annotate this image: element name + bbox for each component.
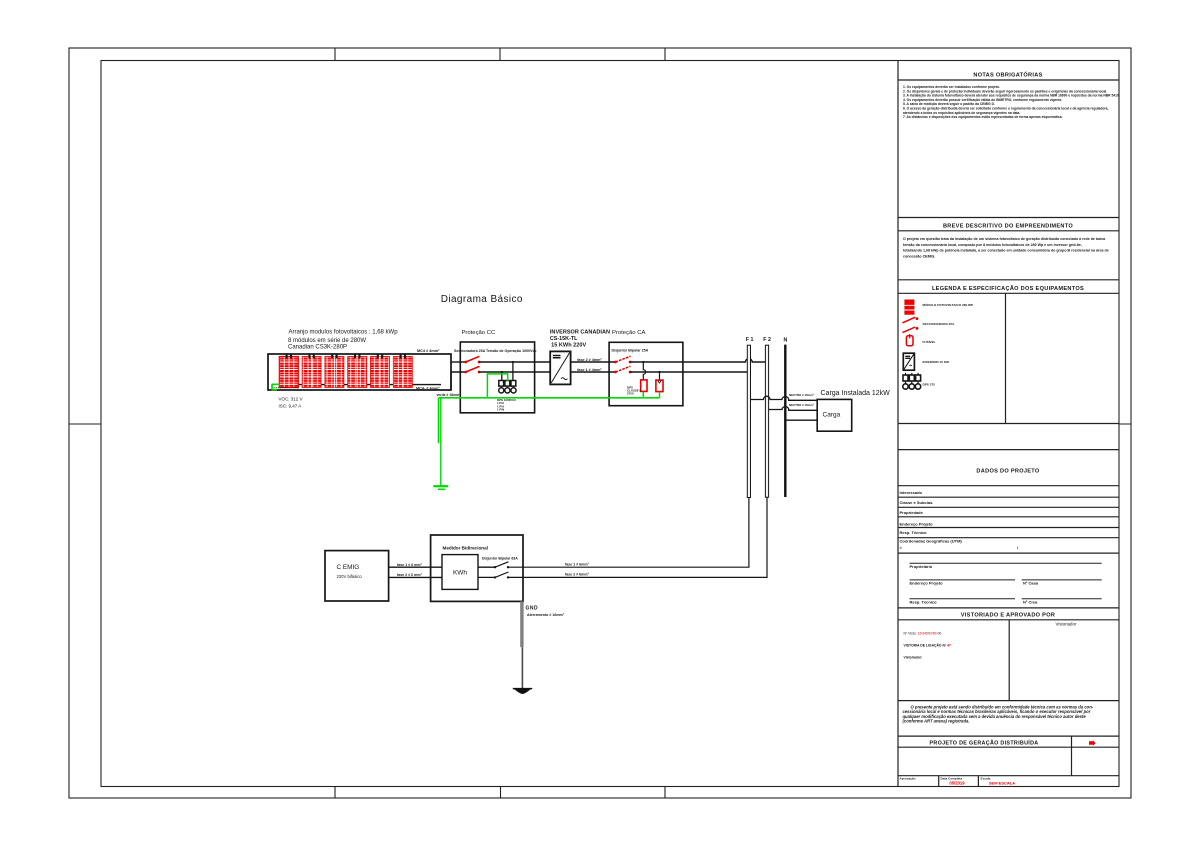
project data field labels xyxy=(900,490,1020,550)
svg-text:fase 2 # 6 mm²: fase 2 # 6 mm² xyxy=(397,573,423,577)
wire: S2 to inverter xyxy=(479,371,550,373)
svg-text:VISTORIA DE LIGAÇÃO Nº 47: VISTORIA DE LIGAÇÃO Nº 47 xyxy=(904,642,952,647)
wire: PV- riser to DC switch xyxy=(451,372,466,390)
svg-text:MC4- # 4mm²: MC4- # 4mm² xyxy=(416,387,440,391)
svg-text:KWh: KWh xyxy=(453,570,467,577)
GND thin riser xyxy=(521,647,523,689)
wire: C EMIG fase1 xyxy=(389,566,442,568)
svg-text:7. As distâncias e disposições: 7. As distâncias e disposições dos equip… xyxy=(903,115,1063,119)
svg-text:VISTORIADO E APROVADO POR: VISTORIADO E APROVADO POR xyxy=(961,612,1055,618)
svg-text:Proprietário: Proprietário xyxy=(910,564,933,569)
svg-text:Canadian CS3K-280P: Canadian CS3K-280P xyxy=(288,344,347,350)
svg-text:DADOS DO PROJETO: DADOS DO PROJETO xyxy=(976,468,1039,474)
svg-text:GND: GND xyxy=(526,606,539,612)
svg-text:Diagrama Básico: Diagrama Básico xyxy=(441,294,523,305)
green: CA riser 1 xyxy=(642,392,644,398)
wire: S1 to inverter xyxy=(479,361,550,363)
GND earth symbol xyxy=(513,689,532,694)
AC breaker pole 2 xyxy=(614,366,631,373)
svg-text:fase 2 # 4mm²: fase 2 # 4mm² xyxy=(577,358,602,362)
svg-text:verde # 16mm²: verde # 16mm² xyxy=(437,393,462,397)
svg-text:\: \ xyxy=(1017,545,1019,550)
DPS CA label xyxy=(627,385,641,395)
meter switch pole 1 xyxy=(494,562,509,569)
DC switch S2 xyxy=(464,366,480,373)
svg-text:Seccionadora 25A Tensão de O: Seccionadora 25A Tensão de Operação 1000… xyxy=(454,349,537,353)
wire: F2 to carga xyxy=(769,406,818,410)
DPS CA tap 1 with crossover xyxy=(643,362,645,380)
svg-text:Propriedade: Propriedade xyxy=(900,510,924,515)
kWh meter box xyxy=(442,555,478,590)
DPS tap from plus wire xyxy=(512,362,514,380)
DPS DC value label xyxy=(497,398,517,412)
title block panel grid xyxy=(898,61,1119,787)
meter switch pole 2 xyxy=(494,572,509,579)
svg-text:fase 1 # 4mm²: fase 1 # 4mm² xyxy=(577,368,602,372)
svg-text:Resp. Técnico: Resp. Técnico xyxy=(910,600,938,605)
legend seccionadora symbol xyxy=(903,317,919,332)
GND heavy riser xyxy=(520,601,523,647)
svg-text:Vistoriador: Vistoriador xyxy=(1056,622,1077,627)
svg-text:INVERSOR CANADIAN: INVERSOR CANADIAN xyxy=(550,330,610,336)
junction dots CA xyxy=(642,361,644,363)
svg-text:fase 1 # 6 mm²: fase 1 # 6 mm² xyxy=(397,563,423,567)
svg-text:totalizando 1,68 kWp de potênc: totalizando 1,68 kWp de potência instala… xyxy=(903,249,1109,253)
svg-text:fase 2 # 6mm²: fase 2 # 6mm² xyxy=(565,573,590,577)
wire: breaker to bus fase1 xyxy=(630,371,747,373)
busbar F1 xyxy=(747,345,750,497)
svg-text:fase 1 # 6mm²: fase 1 # 6mm² xyxy=(565,562,590,566)
svg-text:Interessado: Interessado xyxy=(900,490,923,495)
DPS CA module 1 xyxy=(641,380,647,392)
wire: N to carga xyxy=(787,419,818,421)
green: CA riser 2 xyxy=(659,392,661,398)
svg-text:Endereço Projeto: Endereço Projeto xyxy=(910,581,944,586)
wire: inverter fase1 out xyxy=(571,371,616,373)
svg-text:1 P/N: 1 P/N xyxy=(497,408,504,412)
svg-text:O projeto em questão trata da: O projeto em questão trata da instalação… xyxy=(903,237,1106,241)
svg-text:275V: 275V xyxy=(627,392,634,396)
wire: breaker to bus fase2 xyxy=(630,359,765,362)
green: earth electrode symbol xyxy=(433,485,448,487)
wire: kWh to switch top xyxy=(478,566,495,568)
svg-text:ISC: 9,47 A: ISC: 9,47 A xyxy=(279,403,302,408)
carga box xyxy=(817,399,852,431)
svg-text:concessão CEMIG.: concessão CEMIG. xyxy=(903,254,935,258)
svg-text:8 módulos em série de 280W: 8 módulos em série de 280W xyxy=(288,338,366,344)
DPS tap from minus wire xyxy=(501,372,503,380)
junction dots DC xyxy=(501,371,503,373)
PV array caption xyxy=(288,329,398,350)
svg-text:Disjuntor Bipolar 25A: Disjuntor Bipolar 25A xyxy=(612,348,649,352)
svg-text:F 2: F 2 xyxy=(763,337,771,343)
svg-text:NEUTRO # 16mm²: NEUTRO # 16mm² xyxy=(789,393,814,397)
svg-text:Nº Casa: Nº Casa xyxy=(1023,581,1039,586)
PV string bottom wire xyxy=(281,384,441,386)
svg-text:NOTAS OBRIGATÓRIAS: NOTAS OBRIGATÓRIAS xyxy=(973,70,1042,78)
legend fusivel symbol xyxy=(906,334,913,346)
svg-text:Proteção CC: Proteção CC xyxy=(462,330,496,336)
green: CC riser xyxy=(487,374,507,398)
wire: F1 tail to meter xyxy=(508,498,749,568)
svg-text:Medidor Bidirecional: Medidor Bidirecional xyxy=(443,546,488,551)
signature lines xyxy=(910,563,1102,599)
svg-text:NEUTRO # 16mm²: NEUTRO # 16mm² xyxy=(789,403,814,407)
DPS CA module 2 xyxy=(656,380,663,392)
Protecao CA box xyxy=(609,342,683,405)
svg-text:Endereço Projeto: Endereço Projeto xyxy=(900,522,934,527)
DPS CA tap 2 xyxy=(659,372,661,380)
svg-text:C EMIG: C EMIG xyxy=(337,564,360,571)
svg-text:Aprovação: Aprovação xyxy=(900,776,916,780)
svg-text:MÓDULO FOTOVOLTAICO 280 WP: MÓDULO FOTOVOLTAICO 280 WP xyxy=(923,302,974,307)
wire: inverter fase2 out xyxy=(571,361,616,363)
legend DPS symbol xyxy=(903,373,921,389)
svg-text:15 KWh 220V: 15 KWh 220V xyxy=(551,343,586,349)
svg-text:INVERSOR 15 KW: INVERSOR 15 KW xyxy=(923,360,950,364)
svg-text:tensão da concessionária local: tensão da concessionária local, composto… xyxy=(903,243,1082,247)
svg-text:LEGENDA E ESPECIFICAÇÃO DOS EQ: LEGENDA E ESPECIFICAÇÃO DOS EQUIPAMENTOS xyxy=(932,285,1084,292)
svg-text:Aterramento # 16mm²: Aterramento # 16mm² xyxy=(527,613,565,617)
green: array earth stub xyxy=(272,384,281,389)
wire: PV+ to DC switch xyxy=(451,361,466,363)
legend inversor symbol xyxy=(903,353,914,370)
wire: kWh to switch bottom xyxy=(478,576,495,578)
AC breaker pole 1 xyxy=(614,356,631,363)
busbar labels xyxy=(746,337,788,344)
svg-text:F 1: F 1 xyxy=(746,337,754,343)
svg-text:05/2019: 05/2019 xyxy=(949,781,965,786)
Protecao CC box xyxy=(460,342,534,413)
busbar N xyxy=(784,345,786,497)
DPS DC cluster xyxy=(499,381,516,394)
svg-text:Disjuntor Bipolar 63A: Disjuntor Bipolar 63A xyxy=(482,557,518,561)
svg-text:Arranjo modulos fotovoltaicos: Arranjo modulos fotovoltaicos : 1,68 kWp xyxy=(289,329,399,335)
svg-text:Nº Visto: 12/345/6789-00: Nº Visto: 12/345/6789-00 xyxy=(904,632,942,636)
svg-text:Coordenadas Geográficas (UTM): Coordenadas Geográficas (UTM) xyxy=(900,539,963,544)
svg-text:MC4 # 4mm²: MC4 # 4mm² xyxy=(417,349,440,353)
wire: C EMIG fase2 xyxy=(389,576,442,578)
C EMIG box xyxy=(325,551,389,601)
svg-text:Classe e Subclas.: Classe e Subclas. xyxy=(900,500,934,505)
svg-text:(conforme ART anexa) registrad: (conforme ART anexa) registrada. xyxy=(903,718,970,723)
wire: F1 to carga (neutro run) xyxy=(751,396,818,400)
bottom strip labels xyxy=(900,776,991,780)
string id dashed tag xyxy=(274,387,300,389)
svg-text:>: > xyxy=(900,545,903,550)
busbar F2 xyxy=(765,345,768,497)
notes text xyxy=(903,85,1120,119)
svg-text:FUSÍVEL: FUSÍVEL xyxy=(923,339,936,344)
svg-text:Vistoriador:: Vistoriador: xyxy=(904,656,923,660)
green: earth bus xyxy=(438,397,659,399)
legend module symbol xyxy=(904,300,973,315)
DC switch S1 xyxy=(464,356,480,363)
svg-text:PROJETO DE GERAÇÃO DISTRIBUÍDA: PROJETO DE GERAÇÃO DISTRIBUÍDA xyxy=(930,739,1039,747)
medidor box xyxy=(431,535,523,601)
svg-text:Proteção CA: Proteção CA xyxy=(612,330,645,336)
svg-text:SECCIONADORA 25A: SECCIONADORA 25A xyxy=(923,322,956,326)
svg-text:BREVE DESCRITIVO DO EMPREENDIM: BREVE DESCRITIVO DO EMPREENDIMENTO xyxy=(943,223,1073,229)
module top jumpers xyxy=(287,354,405,358)
svg-text:VOC: 312 V: VOC: 312 V xyxy=(279,397,303,402)
inverter U1 xyxy=(550,351,570,384)
svg-text:Nº Crea: Nº Crea xyxy=(1023,600,1038,605)
svg-text:CS-15K-TL: CS-15K-TL xyxy=(550,336,578,342)
inverter caption xyxy=(550,330,610,349)
svg-text:Carga Instalada 12kW: Carga Instalada 12kW xyxy=(821,390,891,397)
logo red arrow xyxy=(1089,740,1096,745)
declaration paragraph xyxy=(903,705,1094,724)
svg-text:DPS 275: DPS 275 xyxy=(923,382,936,386)
PV array box xyxy=(268,354,451,390)
svg-text:SEM ESCALA: SEM ESCALA xyxy=(989,781,1015,786)
green: earth drop double line xyxy=(437,398,439,443)
svg-text:Resp. Técnico: Resp. Técnico xyxy=(900,530,928,535)
wire: F2 tail to meter xyxy=(508,497,767,577)
svg-text:Carga: Carga xyxy=(823,412,841,419)
svg-text:220V bifásico: 220V bifásico xyxy=(337,574,363,579)
svg-text:N: N xyxy=(784,338,788,344)
